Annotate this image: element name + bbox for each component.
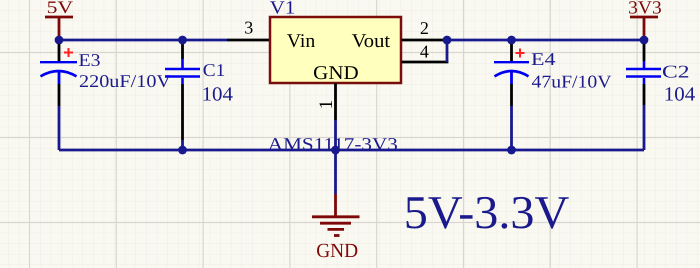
svg-text:104: 104 [664,84,695,106]
wire C1 to bottom rail [181,140,184,150]
pin 1 [334,83,337,120]
pin 3 [227,39,270,42]
junction node E4 top [507,36,516,45]
ground stem [334,194,337,216]
E3 curved plate [41,71,77,76]
5V bar symbol [45,17,73,40]
wire pin4 to pin2 [446,40,449,62]
svg-text:E4: E4 [531,49,556,69]
C2 bottom lead [643,78,646,84]
svg-text:47uF/10V: 47uF/10V [532,72,612,92]
svg-text:E3: E3 [79,50,101,70]
wire GND stem [334,150,337,194]
svg-text:2: 2 [420,18,429,38]
svg-text:Vout: Vout [352,31,391,52]
svg-text:AMS1117-3V3: AMS1117-3V3 [268,134,398,154]
power port 5V [45,0,74,40]
C1 top lead [181,44,184,59]
E3 top lead [58,44,61,61]
wire top rail right [447,39,644,42]
wire pin1 to bottom rail [334,120,337,150]
junction node 5V/E3 [55,36,64,45]
E3 positive plate [40,61,77,63]
E4 plus sign [516,49,525,58]
svg-text:C1: C1 [203,60,226,80]
ground [312,194,360,262]
E3 bottom lead [58,71,61,84]
svg-text:5V: 5V [47,0,74,17]
svg-text:C2: C2 [662,61,690,81]
3V3 bar symbol [630,17,658,40]
pin 2 [402,39,445,42]
svg-text:1: 1 [316,100,337,110]
svg-text:104: 104 [202,84,233,106]
E4 top lead [510,44,513,61]
capacitor C2 [626,44,695,150]
svg-text:5V-3.3V: 5V-3.3V [404,187,570,239]
pin 4 [402,61,449,64]
junction node 3V3 [640,36,649,45]
junction node E4 bottom [507,146,516,155]
wire top rail left [59,39,227,42]
capacitor E4 [494,44,612,150]
regulator V1 body [270,17,401,83]
E4 curved plate [495,71,529,76]
E4 positive plate [494,61,529,63]
svg-text:4: 4 [420,42,429,62]
wire bottom rail [59,149,644,152]
E3 plus sign [64,48,73,57]
svg-text:V1: V1 [270,0,296,19]
capacitor E3 [40,44,171,150]
wire C2 to bottom rail [643,105,646,150]
svg-text:3: 3 [244,18,253,38]
svg-text:GND: GND [313,63,359,84]
C2 top lead [643,44,646,61]
junction node C1 bottom [178,146,187,155]
ground bars [312,215,360,218]
power port 3V3 [628,0,662,40]
junction node GND rail [331,146,340,155]
svg-text:GND: GND [316,240,358,262]
junction node C1 top [178,36,187,45]
C1 plates [165,69,200,77]
wire E3 to bottom rail [58,106,61,150]
junction node pin2/4 [443,36,452,45]
svg-text:220uF/10V: 220uF/10V [79,71,171,91]
E4 bottom lead [510,71,513,84]
svg-text:Vin: Vin [287,31,316,52]
wire E4 to bottom rail [510,106,513,150]
capacitor C1 [165,44,233,150]
C1 bottom lead [181,78,184,84]
C2 plates [626,69,661,77]
